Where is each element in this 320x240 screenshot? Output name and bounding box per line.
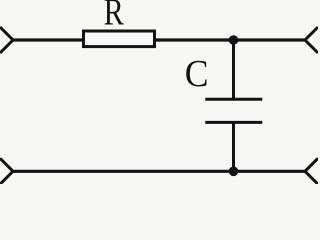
resistor R [84, 31, 155, 47]
port terminal bottom-left [0, 158, 13, 184]
svg-text:C: C [185, 52, 209, 94]
capacitor C [205, 99, 262, 122]
wire capacitor bottom lead [232, 122, 235, 171]
wire top-left (input to resistor) [13, 38, 84, 41]
port terminal top-left [0, 27, 13, 53]
node junction top [229, 35, 239, 45]
wire capacitor top lead [232, 40, 235, 99]
node junction bottom [229, 167, 239, 177]
wire bottom (return path) [13, 170, 305, 173]
port terminal bottom-right [305, 158, 318, 184]
port terminal top-right [305, 27, 318, 53]
wire top-right (resistor to output) [155, 38, 306, 41]
svg-text:R: R [104, 0, 124, 33]
